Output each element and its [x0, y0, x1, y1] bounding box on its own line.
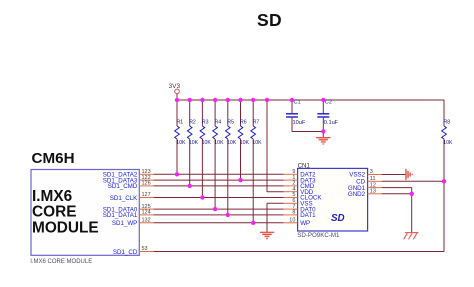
capacitor C1 10uF [286, 99, 306, 131]
junction R3/CLK [200, 195, 204, 199]
svg-text:53: 53 [142, 246, 148, 252]
svg-text:124: 124 [142, 210, 151, 216]
CN1 pin 13 GND2 [348, 189, 382, 199]
CN1 pin 10 WP [284, 218, 311, 228]
junction dots on 3V3 rail [175, 98, 326, 102]
wire SD1_DATA3 net [153, 179, 283, 181]
CN1 pin 7 DAT0 [284, 204, 317, 214]
CN1 pin 5 CLOCK [284, 192, 323, 202]
svg-text:R3: R3 [202, 120, 209, 126]
svg-text:CM6H: CM6H [32, 150, 75, 167]
svg-text:SD1_CMD: SD1_CMD [108, 183, 138, 190]
svg-text:10K: 10K [252, 140, 262, 146]
svg-text:R4: R4 [215, 120, 222, 126]
svg-text:10K: 10K [202, 140, 212, 146]
wire VSS to ground [267, 203, 284, 232]
svg-text:C2: C2 [325, 99, 332, 105]
ground below VSS [260, 232, 274, 238]
CN1 pin 12 GND1 [348, 182, 382, 192]
ground right of VSS2 [406, 169, 412, 180]
module pin 123 SD1_DATA2 [103, 169, 154, 179]
junction R5/DATA1 [226, 213, 230, 217]
svg-text:3V3: 3V3 [169, 83, 181, 90]
junction R8/CD [442, 179, 446, 183]
wire VDD from rail to CN1 pin 4 [267, 100, 284, 192]
svg-text:0.1uF: 0.1uF [324, 120, 339, 126]
wire SD1_WP net [153, 222, 283, 224]
svg-text:13: 13 [370, 189, 376, 195]
wire SD1_DATA1 net [153, 214, 283, 216]
svg-text:R7: R7 [253, 120, 260, 126]
module pin 53 SD1_CD [113, 246, 153, 256]
sheet title SD [257, 10, 282, 31]
svg-text:10K: 10K [240, 140, 250, 146]
ground under C2 [316, 138, 330, 144]
junction GND1/GND2 [410, 192, 414, 196]
capacitor C2 0.1uF [317, 99, 338, 137]
svg-text:R6: R6 [240, 120, 247, 126]
svg-text:SD-PO9KC-M1: SD-PO9KC-M1 [297, 232, 340, 239]
CN1 pin 1 DAT3 [284, 175, 317, 185]
wire SD1_DATA0 net [153, 208, 283, 210]
svg-text:10K: 10K [443, 140, 453, 146]
svg-text:SD1_DATA1: SD1_DATA1 [103, 212, 138, 219]
connector CN1 SD-PO9KC-M1 [297, 162, 367, 239]
wire SD1_DATA2 net [153, 173, 283, 175]
svg-text:10uF: 10uF [293, 120, 306, 126]
svg-text:R5: R5 [227, 120, 234, 126]
wire SD1_CLK net [153, 197, 283, 199]
resistor R3 10K [200, 100, 211, 198]
junction C2 bottom [321, 129, 325, 133]
earth ground [404, 233, 419, 240]
resistor R4 10K [213, 100, 224, 209]
svg-text:R1: R1 [177, 120, 184, 126]
svg-text:I.MX6 CORE MODULE: I.MX6 CORE MODULE [30, 259, 92, 265]
CN1 pin 11 CD [356, 176, 381, 186]
module pin 126 SD1_CMD [108, 181, 154, 191]
junction R1/DATA2 [175, 172, 179, 176]
module pin 127 SD1_CLK [110, 192, 154, 202]
wire SD1_CD net [153, 181, 444, 251]
svg-text:SD1_CD: SD1_CD [113, 249, 138, 256]
svg-text:MODULE: MODULE [32, 219, 99, 236]
resistor R8 10K [442, 100, 453, 181]
svg-text:R8: R8 [444, 120, 451, 126]
svg-text:SD1_CLK: SD1_CLK [110, 195, 138, 202]
CN1 pin 2 CMD [284, 181, 315, 191]
svg-text:10K: 10K [189, 140, 199, 146]
svg-text:GND2: GND2 [348, 191, 366, 198]
svg-text:12: 12 [370, 182, 376, 188]
svg-text:I.MX6: I.MX6 [32, 188, 72, 205]
CN1 pin 9 DAT2 [284, 169, 317, 179]
junction R2/CMD [188, 184, 192, 188]
svg-text:127: 127 [142, 192, 151, 198]
CN1 pin 3 VSS2 [349, 169, 381, 179]
junction R7/WP [251, 221, 255, 225]
svg-text:11: 11 [370, 176, 376, 182]
resistor R2 10K [187, 100, 198, 186]
svg-text:126: 126 [142, 181, 151, 187]
module pin 122 SD1_DATA3 [103, 175, 154, 185]
svg-text:CORE: CORE [32, 203, 76, 220]
module pin 124 SD1_DATA1 [103, 210, 154, 220]
module pin 132 SD1_WP [112, 218, 153, 228]
module pin 125 SD1_DATA0 [103, 204, 154, 214]
resistor R5 10K [226, 100, 237, 215]
svg-text:C1: C1 [294, 99, 301, 105]
svg-text:R2: R2 [189, 120, 196, 126]
junction R4/DATA0 [213, 207, 217, 211]
power 3V3 [169, 83, 181, 100]
wire VSS2 to ground [382, 174, 406, 176]
CN1 pin 6 VSS [284, 198, 313, 208]
svg-text:132: 132 [142, 218, 151, 224]
CN1 pin 4 VDD [284, 186, 314, 196]
wire GND2 to earth ground [382, 194, 412, 233]
wire C1 bottom to C2 bottom [292, 131, 323, 133]
CN1 pin 8 DAT1 [284, 210, 317, 220]
svg-text:8: 8 [292, 210, 295, 216]
svg-text:WP: WP [300, 220, 310, 227]
module CM6H I.MX6 CORE MODULE [30, 150, 139, 265]
resistor R6 10K [238, 100, 249, 180]
junction R6/DATA3 [238, 178, 242, 182]
svg-text:DAT1: DAT1 [300, 212, 316, 219]
svg-text:10K: 10K [227, 140, 237, 146]
resistor R1 10K [175, 100, 186, 174]
svg-text:10K: 10K [214, 140, 224, 146]
svg-text:SD1_WP: SD1_WP [112, 220, 137, 227]
svg-text:SD: SD [331, 213, 345, 224]
wire GND1 [382, 188, 412, 194]
resistor R7 10K [251, 100, 262, 223]
wire SD1_CMD net [153, 185, 283, 187]
svg-text:3: 3 [370, 169, 373, 175]
svg-text:10K: 10K [176, 140, 186, 146]
wire 3V3 rail [177, 99, 444, 101]
svg-text:10: 10 [289, 218, 295, 224]
